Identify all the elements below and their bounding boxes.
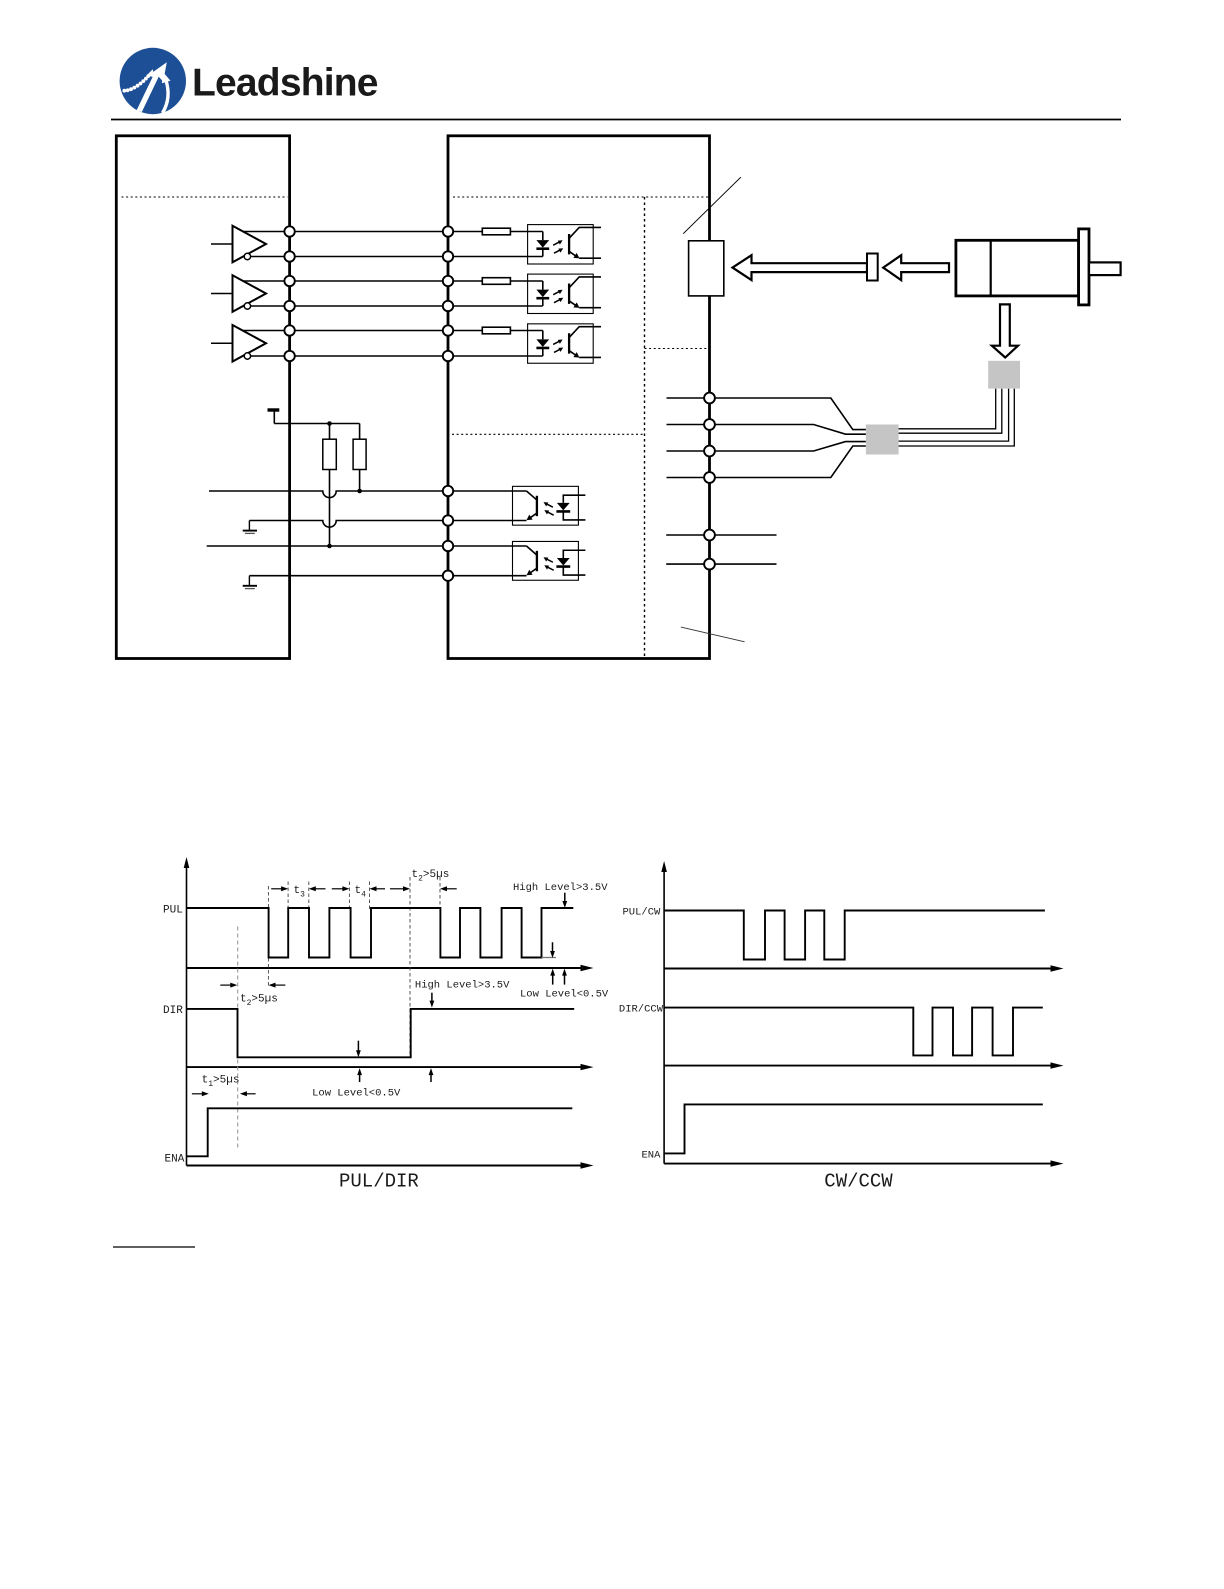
annotation Low Level DIR arrows bbox=[356, 1041, 433, 1082]
svg-text:PUL: PUL bbox=[163, 905, 183, 917]
svg-text:Low Level<0.5V: Low Level<0.5V bbox=[520, 989, 609, 1001]
dimension arrows t3/t4/t2 chain bbox=[271, 886, 457, 891]
motor front cap divider bbox=[990, 240, 992, 296]
CW/CCW baseline 1 bbox=[664, 965, 1063, 971]
wire DIR- controller-to-driver bbox=[290, 305, 448, 307]
annotation Low Level PUL arrows bbox=[550, 942, 567, 984]
annotation High Level PUL bbox=[513, 882, 608, 908]
driver dashed divider vertical bbox=[644, 197, 646, 657]
block arrow motor cable down bbox=[992, 304, 1018, 357]
optocoupler OC5 bbox=[453, 541, 585, 580]
block arrow from motor bbox=[883, 255, 949, 280]
PUL/DIR baseline 1 bbox=[187, 965, 594, 971]
ground GND2 bbox=[243, 576, 257, 589]
wire bundle to motor connector bbox=[899, 389, 1015, 446]
low level reference stub bbox=[542, 957, 557, 959]
resistor R4 bbox=[323, 424, 337, 547]
PUL/DIR baseline 3 bbox=[187, 1162, 594, 1168]
wire ENA- inside driver bbox=[453, 355, 543, 357]
svg-text:DIR: DIR bbox=[163, 1005, 183, 1017]
wire motor phase B+ to cable connector bbox=[715, 442, 866, 451]
optocoupler OC3 bbox=[528, 324, 601, 363]
PUL/DIR diagram axis vertical bbox=[184, 857, 190, 1166]
svg-text:ENA: ENA bbox=[642, 1150, 662, 1162]
leader line bottom bbox=[681, 627, 745, 642]
svg-text:Low Level<0.5V: Low Level<0.5V bbox=[312, 1088, 401, 1100]
CW/CCW diagram axis vertical bbox=[661, 861, 667, 1164]
dashed marker first pulse bbox=[267, 886, 269, 986]
wire motor phase B+ stub bbox=[667, 450, 705, 452]
logo icon bbox=[120, 48, 186, 114]
ground GND1 bbox=[243, 521, 257, 534]
line driver gate U1 bbox=[211, 226, 290, 263]
controller box bbox=[116, 136, 289, 659]
wire PUL- inside driver bbox=[453, 256, 543, 258]
junction dot R5 to row A bbox=[357, 489, 362, 494]
CW/CCW baseline 3 bbox=[664, 1160, 1063, 1166]
PUL/DIR baseline 2 bbox=[187, 1064, 594, 1070]
wire motor phase B- to cable connector bbox=[715, 446, 866, 478]
svg-text:CW/CCW: CW/CCW bbox=[824, 1171, 893, 1193]
wire motor phase A- stub bbox=[667, 424, 705, 426]
inline cable connector bbox=[867, 254, 878, 281]
wire motor phase A+ stub bbox=[667, 397, 705, 399]
svg-text:High Level>3.5V: High Level>3.5V bbox=[513, 882, 608, 894]
power terminal +V wires bbox=[666, 534, 776, 536]
driver bottom-left terminals bbox=[443, 486, 453, 581]
header rule bbox=[111, 119, 1121, 121]
PUL/CW waveform bbox=[664, 911, 1045, 960]
junction dot on VCC wire bbox=[327, 421, 332, 426]
svg-text:PUL/DIR: PUL/DIR bbox=[339, 1171, 419, 1193]
DIR/CCW waveform bbox=[664, 1008, 1043, 1056]
wire VCC to pull-up resistors bbox=[274, 423, 359, 425]
wire DIR+ controller-to-driver bbox=[290, 280, 448, 282]
wire DIR signal row C bbox=[207, 545, 443, 547]
dimension arrows t2 DIR bbox=[220, 983, 285, 988]
annotation High Level DIR bbox=[415, 980, 510, 1008]
dashed markers t3/t4 bbox=[288, 877, 440, 909]
ENA waveform right bbox=[664, 1104, 1043, 1153]
driver motor terminals bbox=[704, 393, 715, 483]
ENA waveform bbox=[187, 1108, 573, 1156]
power terminal GND wires bbox=[666, 563, 776, 565]
wire ENA- controller-to-driver bbox=[290, 355, 448, 357]
block arrow cable to driver bbox=[733, 255, 868, 280]
connector P2 on driver edge bbox=[689, 241, 724, 296]
CW/CCW baseline 2 bbox=[664, 1062, 1063, 1068]
driver-side cable connector bbox=[866, 425, 899, 455]
controller dashed divider bbox=[122, 196, 288, 198]
wire ENA+ controller-to-driver bbox=[290, 330, 448, 332]
driver dotted divider lower bbox=[452, 433, 645, 435]
resistor R5 bbox=[353, 424, 366, 492]
wire motor phase A- to cable connector bbox=[715, 425, 866, 435]
junction dot R4 to row C bbox=[327, 544, 332, 549]
driver power terminals bbox=[704, 530, 715, 570]
leader line top bbox=[683, 177, 741, 234]
resistor R3 bbox=[453, 330, 482, 332]
svg-text:ENA: ENA bbox=[165, 1154, 185, 1166]
driver dotted divider top bbox=[453, 196, 708, 198]
optocoupler OC4 bbox=[453, 486, 585, 525]
svg-text:DIR/CCW: DIR/CCW bbox=[619, 1004, 664, 1016]
wire motor phase B- stub bbox=[667, 477, 705, 479]
footnote rule bbox=[113, 1246, 195, 1248]
svg-text:High Level>3.5V: High Level>3.5V bbox=[415, 980, 510, 992]
optocoupler OC1 bbox=[528, 225, 601, 264]
motor cable connector bbox=[988, 361, 1020, 389]
svg-text:PUL/CW: PUL/CW bbox=[623, 907, 662, 919]
motor shaft bbox=[1089, 262, 1121, 275]
wire PUL- controller-to-driver bbox=[290, 256, 448, 258]
dimension arrows t1 bbox=[192, 1091, 256, 1096]
line driver gate U3 bbox=[211, 325, 290, 362]
wire ground row B with hop bbox=[249, 521, 442, 528]
wire ground row D bbox=[249, 575, 442, 577]
controller output terminals bbox=[284, 226, 294, 361]
svg-text:Leadshine: Leadshine bbox=[192, 62, 378, 105]
driver box bbox=[448, 136, 710, 659]
PUL waveform bbox=[187, 908, 574, 958]
wire PUL+ controller-to-driver bbox=[290, 231, 448, 233]
optocoupler OC2 bbox=[528, 274, 601, 313]
driver dotted divider mid-right bbox=[645, 348, 709, 350]
resistor R2 bbox=[453, 280, 482, 282]
VCC rail symbol bbox=[268, 410, 280, 424]
motor flange bbox=[1079, 229, 1089, 305]
wire DIR- inside driver bbox=[453, 305, 543, 307]
wire motor phase A+ to cable connector bbox=[715, 398, 866, 430]
wire PUL signal row A with hop bbox=[209, 491, 443, 498]
resistor R1 bbox=[453, 231, 482, 233]
line driver gate U2 bbox=[211, 275, 290, 312]
dashed marker t2 long bbox=[409, 877, 411, 1057]
DIR waveform bbox=[187, 1009, 575, 1057]
dashed marker t1 (gray) bbox=[237, 927, 239, 1149]
driver input terminals top bbox=[443, 226, 453, 361]
motor body bbox=[956, 240, 1079, 296]
